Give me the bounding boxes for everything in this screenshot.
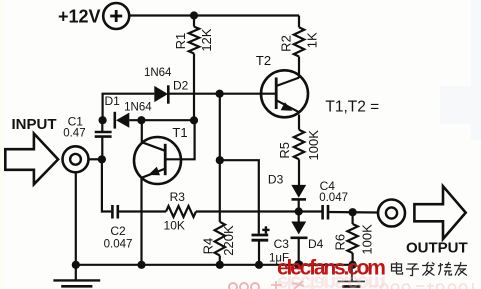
power source V+ circle [103, 3, 129, 29]
wire top rail [129, 14, 299, 16]
wire T1 emitter down [140, 178, 142, 265]
svg-text:R3: R3 [170, 190, 186, 204]
junction top rail / R1 [190, 11, 198, 19]
svg-text:0.047: 0.047 [104, 238, 133, 250]
diode D4 [291, 212, 308, 265]
output arrow [414, 186, 465, 239]
svg-text:D3: D3 [268, 173, 284, 187]
wire T2 base [220, 93, 277, 95]
junction D1 right / T1 collector [137, 116, 145, 124]
wire T2 emitter to R5 [298, 115, 300, 130]
svg-text:D1: D1 [105, 94, 121, 108]
svg-text:220K: 220K [221, 225, 236, 256]
output connector jack [378, 200, 405, 227]
svg-text:OUTPUT: OUTPUT [406, 239, 468, 256]
svg-text:1K: 1K [305, 32, 320, 48]
input connector jack [63, 146, 89, 172]
svg-text:R4: R4 [200, 238, 215, 255]
svg-text:INPUT: INPUT [12, 116, 57, 133]
junction rail C3 [255, 261, 263, 269]
svg-text:D4: D4 [308, 237, 324, 251]
svg-text:10K: 10K [164, 219, 185, 233]
diode D1 [115, 112, 194, 129]
ground right [338, 265, 365, 287]
svg-text:R2: R2 [279, 35, 294, 52]
junction rail input [72, 261, 80, 269]
svg-text:C3: C3 [274, 237, 290, 251]
background artifact patch [471, 0, 481, 140]
wire C4 to output [329, 211, 378, 214]
svg-text:+12V: +12V [58, 7, 101, 27]
wire input node down to C2 [102, 159, 111, 211]
wire junction down to R4 [219, 160, 221, 222]
svg-text:C2: C2 [110, 224, 126, 238]
node D2-T2 junction [216, 90, 224, 98]
svg-text:R5: R5 [277, 142, 292, 159]
junction input node [98, 155, 106, 163]
capacitor C2 [112, 205, 117, 219]
resistor R4 [215, 222, 225, 265]
junction R1 bottom [190, 116, 198, 124]
wire D2 node down [219, 94, 221, 161]
svg-text:0.047: 0.047 [319, 192, 348, 204]
resistor R3 [166, 206, 196, 217]
watermark chinese text 电子发烧友 [392, 262, 468, 276]
junction rail T1 emitter [137, 261, 145, 269]
diode D3 [291, 185, 306, 212]
input arrow [5, 134, 58, 185]
transistor T2 [261, 70, 308, 117]
resistor R2 [294, 16, 304, 76]
svg-text:R1: R1 [173, 33, 188, 50]
bottom edge artifacts [229, 281, 473, 289]
svg-text:C1: C1 [68, 115, 84, 129]
wire C2 to R3 [119, 210, 166, 212]
resistor R6 [347, 212, 357, 265]
svg-text:0.47: 0.47 [63, 128, 85, 140]
wire to C3 [220, 160, 259, 234]
svg-text:100K: 100K [360, 224, 375, 255]
svg-text:1N64: 1N64 [144, 67, 172, 79]
wire R3 to D3 node [196, 210, 322, 212]
svg-text:T2: T2 [256, 53, 271, 68]
svg-text:100K: 100K [306, 130, 321, 161]
svg-text:D2: D2 [173, 79, 189, 93]
C3 plus sign [262, 226, 269, 233]
wire T1 base [165, 121, 194, 160]
capacitor C4 [323, 205, 328, 220]
junction R6 top [349, 208, 357, 216]
junction rail R4 [216, 261, 224, 269]
wire node A to D2 [103, 94, 155, 121]
svg-text:T1: T1 [172, 125, 187, 140]
svg-text:C4: C4 [320, 179, 336, 193]
ground left [53, 265, 100, 287]
svg-text:T1,T2 =: T1,T2 = [325, 99, 379, 116]
diode D2 [154, 85, 219, 103]
svg-text:12K: 12K [199, 28, 214, 51]
wire input to node [89, 158, 102, 160]
wire input jack to ground [75, 172, 77, 264]
node A junction [99, 116, 107, 124]
junction rail D4 [294, 260, 303, 269]
junction D3/D4/C4 [295, 207, 303, 215]
capacitor C1 [95, 120, 112, 159]
resistor R5 [294, 130, 304, 185]
svg-text:R6: R6 [333, 234, 348, 251]
wire bottom ground rail [76, 264, 353, 266]
svg-text:1N64: 1N64 [124, 102, 152, 114]
junction C3 branch [216, 156, 224, 164]
capacitor C3 electrolytic [252, 235, 269, 265]
transistor T1 [134, 120, 181, 184]
resistor R1 [189, 16, 199, 121]
svg-text:elecfans.com: elecfans.com [277, 257, 385, 280]
junction rail R6 [349, 261, 357, 269]
